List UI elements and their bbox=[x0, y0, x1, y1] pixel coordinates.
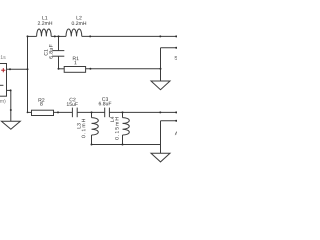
label C3 bbox=[102, 97, 108, 101]
ground top right bbox=[151, 81, 170, 90]
resistor R2 bbox=[32, 110, 54, 115]
node R2 right pin bbox=[57, 111, 59, 113]
label C1 bbox=[44, 49, 48, 55]
node top wire joint bbox=[159, 35, 161, 37]
wire right upper vertical bbox=[160, 48, 162, 81]
node minus wire joint bbox=[10, 109, 12, 111]
node L4 top tee bbox=[122, 111, 124, 113]
node bus plus tee bbox=[27, 68, 29, 70]
node top-left corner bbox=[27, 35, 29, 37]
label right top fragment S (cut) bbox=[175, 56, 178, 60]
node top edge pin bbox=[175, 35, 177, 37]
node bottom wire joint bbox=[159, 111, 161, 113]
label right bottom fragment A (cut) bbox=[175, 132, 178, 136]
wire between L1 and L2 bbox=[51, 35, 66, 37]
value source m) (cut) bbox=[0, 99, 5, 104]
wire bottom return bus bbox=[92, 144, 161, 146]
node mid right tee bbox=[160, 68, 162, 70]
node C1 bottom corner bbox=[58, 68, 60, 70]
node top return edge pin bbox=[175, 47, 177, 49]
capacitor C3 bbox=[104, 108, 106, 118]
label L3 bbox=[77, 123, 81, 128]
capacitor C1 bbox=[58, 36, 60, 50]
value L3 0.1mH bbox=[82, 119, 86, 138]
node bottom-left corner bbox=[27, 112, 29, 114]
label source s (cut) bbox=[1, 55, 6, 59]
source minus sign bbox=[0, 84, 3, 86]
wire C2 to C3 bbox=[77, 111, 105, 113]
voltage source V1 box bbox=[0, 64, 7, 97]
ground left bbox=[1, 121, 20, 129]
node bottom return edge pin bbox=[175, 120, 177, 122]
source plus sign bbox=[1, 68, 5, 72]
resistor R1 bbox=[64, 67, 85, 73]
wire top left segment bbox=[28, 35, 37, 37]
capacitor C2 bbox=[71, 108, 73, 118]
node L1 right pin bbox=[54, 35, 56, 37]
node source minus pin bbox=[10, 89, 12, 91]
wire bottom bus corner to R2 bbox=[28, 111, 32, 113]
label L1 bbox=[42, 16, 47, 20]
wire source minus stub bbox=[7, 89, 11, 91]
value C1 6.8uF bbox=[49, 44, 53, 58]
inductor L3 bbox=[91, 112, 93, 117]
node R1 right pin bbox=[89, 68, 91, 70]
node L3 bottom corner bbox=[91, 144, 93, 146]
ground bottom right bbox=[151, 153, 170, 162]
value C3 6.8uF bbox=[99, 102, 112, 106]
value R1 1 bbox=[74, 61, 76, 65]
wire source minus vertical bbox=[10, 90, 12, 121]
label R2 bbox=[39, 98, 45, 102]
node source plus pin bbox=[9, 68, 11, 70]
wire top return to edge bbox=[161, 47, 178, 49]
node L3 top tee bbox=[91, 111, 93, 113]
node bottom edge pin bbox=[175, 111, 177, 113]
value L4 0.15mH bbox=[115, 117, 119, 139]
node L4 bottom tee bbox=[122, 144, 124, 146]
wire R2 to C2 bbox=[54, 111, 73, 113]
label C2 bbox=[69, 98, 75, 102]
wire right lower vertical bbox=[160, 121, 162, 153]
value L1 2.2mH bbox=[38, 21, 52, 25]
wire left bus vertical bbox=[27, 36, 29, 112]
wire bottom return to edge bbox=[161, 120, 178, 122]
value C2 15uF bbox=[67, 102, 78, 106]
wire middle to right vertical bbox=[86, 68, 161, 70]
value R2 8 bbox=[40, 102, 42, 106]
wire source plus bbox=[7, 68, 28, 70]
node L2 right pin bbox=[89, 35, 91, 37]
wire middle left stub bbox=[59, 68, 65, 70]
label R1 bbox=[73, 57, 79, 61]
inductor L4 bbox=[122, 112, 124, 117]
inductor L1 bbox=[37, 29, 52, 36]
wire C3 to right edge bbox=[109, 111, 177, 113]
inductor L2 bbox=[66, 29, 82, 36]
label L2 bbox=[77, 16, 82, 20]
node C1 top tee bbox=[58, 35, 60, 37]
label L4 bbox=[110, 117, 114, 122]
wire top right to edge bbox=[82, 35, 177, 37]
value L2 0.2mH bbox=[72, 21, 86, 25]
